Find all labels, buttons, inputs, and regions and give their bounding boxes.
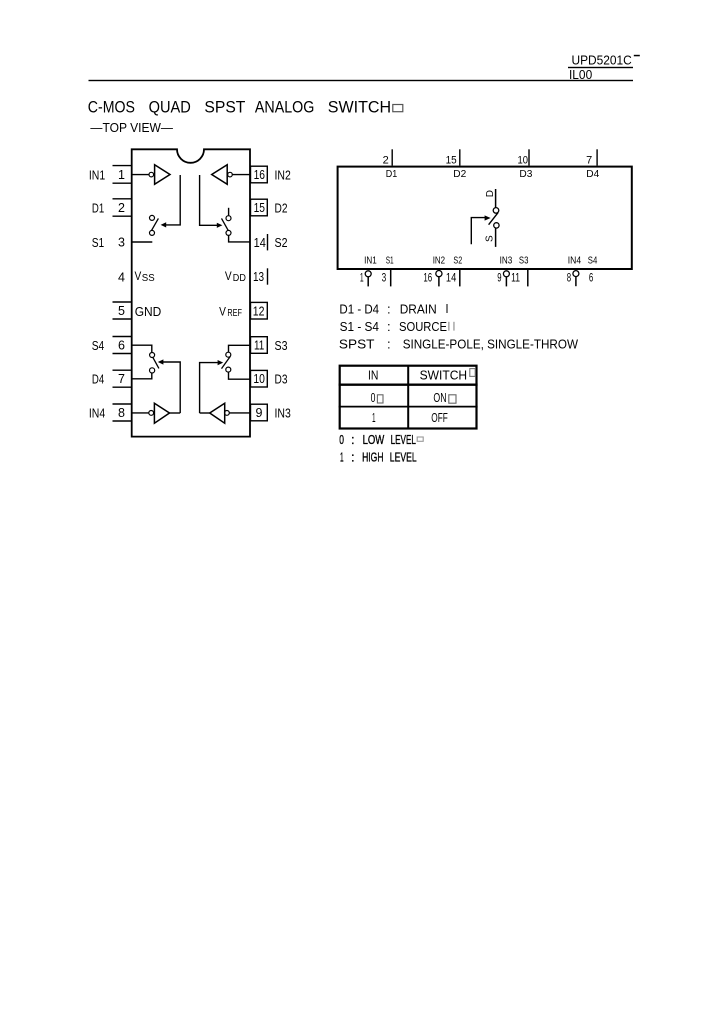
svg-text:IN: IN [368,368,378,383]
pin 9 stub box [251,404,268,421]
svg-text:S4: S4 [92,339,105,353]
svg-text:DD: DD [233,273,246,284]
wire switch SW3 to pin10 (D3) [229,372,251,379]
svg-text:OFF: OFF [431,410,448,425]
switch SW3 blade [222,356,231,368]
pin 3 lead S1 [390,270,392,287]
pin 11 stub box [251,337,268,354]
pin 13 stub edge [267,268,268,284]
svg-text:13: 13 [253,270,264,284]
wire pin1 to inverter A1 [131,174,149,176]
svg-text:SINGLE-POLE, SINGLE-THROW: SINGLE-POLE, SINGLE-THROW [403,336,579,351]
arrow into switch SW4 [158,359,164,364]
pin 11 lead S3 [527,270,529,287]
svg-text:IN4: IN4 [89,406,105,420]
svg-text:1: 1 [372,410,376,425]
wire switch SW4 to pin7 (D4) [131,373,152,379]
svg-text:1: 1 [118,168,125,182]
legend SOURCE trailing artifacts [448,322,449,331]
switch SW4 bottom contact [150,368,155,373]
pin 2 stub [113,199,132,216]
svg-text:14: 14 [254,236,266,250]
inverter A3 input bubble [225,411,230,416]
svg-text:SWITCH: SWITCH [420,368,468,383]
functional diagram box [338,167,632,269]
pin 9 lead with IN3 control circle [503,271,509,287]
svg-text:HIGH: HIGH [362,449,383,464]
svg-text:4: 4 [118,270,125,284]
svg-text:QUAD: QUAD [149,97,191,116]
svg-text:6: 6 [589,270,594,284]
svg-text:IN3: IN3 [500,256,513,267]
svg-text:2: 2 [383,155,389,167]
svg-text::: : [387,319,391,334]
svg-text:ON: ON [433,390,446,405]
svg-text:D2: D2 [275,201,288,215]
pin 6 stub [113,337,132,354]
truth table row divider [339,406,478,408]
svg-text:15: 15 [254,201,265,215]
wire pin6 (S4) to switch SW4 [131,345,152,352]
pin 1 stub [113,166,132,184]
pin label VDD [225,269,246,284]
svg-text:16: 16 [254,168,265,182]
svg-text:11: 11 [511,270,520,284]
svg-text:IN4: IN4 [568,256,582,267]
svg-text:S1 - S4: S1 - S4 [340,319,379,334]
switch SW3 top contact [226,352,231,357]
internal switch D lead [495,189,497,208]
svg-text:S: S [485,235,496,242]
pin 7 top lead [596,149,598,165]
svg-text:S2: S2 [453,256,462,267]
inverter A1 (IN1) [155,165,170,185]
svg-text:10: 10 [253,372,265,386]
pin 8 lead with IN4 control circle [573,271,579,287]
svg-text::: : [387,301,391,316]
svg-text:V: V [219,304,226,318]
svg-text:5: 5 [118,304,125,318]
svg-text:S1: S1 [386,256,394,267]
inverter A2 input bubble [228,172,233,177]
svg-text:IN1: IN1 [364,256,377,267]
wire riser A2 output to switch SW2 [200,175,217,225]
svg-text:IN2: IN2 [275,168,291,182]
wire pin8 to inverter A4 [131,412,149,414]
internal switch blade [489,213,498,225]
wire riser inverter A4 output to switch SW4 [163,362,181,413]
internal switch bottom contact [494,223,499,228]
header part number UPD5201C [572,52,640,67]
svg-text:16: 16 [423,270,432,284]
svg-text:—TOP VIEW—: —TOP VIEW— [90,121,173,135]
svg-text::: : [387,336,391,351]
pin 12 stub box [251,302,268,319]
svg-text:C-MOS: C-MOS [88,97,135,116]
title [88,97,391,116]
svg-text:S3: S3 [275,339,288,353]
svg-text:SWITCH: SWITCH [328,97,391,116]
svg-text:IN3: IN3 [275,406,291,420]
svg-text:UPD5201C: UPD5201C [572,52,632,67]
svg-text:3: 3 [382,270,387,284]
svg-text:D3: D3 [519,169,532,180]
truth table outer border [340,366,477,429]
wire pin11 (S3) to switch SW3 [229,345,251,352]
wire inverter A4 output [170,412,181,414]
svg-text:1: 1 [340,449,344,464]
svg-text:LEVEL: LEVEL [390,449,417,464]
svg-text:D: D [485,190,496,197]
svg-text:S3: S3 [519,256,529,267]
legend line S1-S4 SOURCE [340,319,448,334]
svg-text:SS: SS [142,273,155,284]
pin 2 top lead [391,149,393,165]
svg-text:10: 10 [518,155,529,167]
inverter A4 input bubble [149,411,154,416]
arrow into switch SW2 [217,223,223,228]
header underline under part number [568,67,633,68]
switch SW2 bottom contact [226,230,231,235]
switch SW1 top contact [150,215,155,220]
wire switch SW2 to pin14 (S2) [229,236,251,242]
svg-text:DRAIN: DRAIN [400,301,437,316]
inverter A3 (IN3) [210,403,225,423]
legend line SPST [339,336,579,351]
DIP-16 package body with notch [132,149,250,436]
truth table header divider [339,384,478,386]
svg-text:S1: S1 [92,236,105,250]
svg-text:0: 0 [371,390,376,405]
svg-text:8: 8 [567,270,572,284]
wire pin3 (S1) [131,241,152,243]
svg-text:14: 14 [446,270,457,284]
note 0 LOW LEVEL [339,432,416,447]
svg-text:9: 9 [497,270,502,284]
svg-text:REF: REF [227,308,242,319]
note 1 HIGH LEVEL [340,449,417,464]
svg-text:V: V [225,269,232,283]
switch SW2 blade [222,218,229,230]
pin 14 stub edge [267,234,268,250]
legend DRAIN trailing artifact [446,304,447,313]
switch SW1 bottom contact [150,230,155,235]
pin 14 lead S2 [459,270,461,287]
note LOW LEVEL trailing artifact [417,437,423,441]
wire riser A1 output to switch SW1 [165,175,180,225]
inverter A4 (IN4) [154,403,169,423]
svg-text:D2: D2 [453,169,466,180]
svg-text:1: 1 [360,270,364,284]
title trailing artifact square [393,105,403,112]
switch SW2 top contact [226,216,231,221]
switch SW3 bottom contact [226,367,231,372]
table cell 0 artifact square [377,395,383,403]
svg-text:D4: D4 [586,169,599,180]
pin 10 stub box [251,370,268,387]
switch SW1 blade [152,218,159,230]
svg-text::: : [351,449,355,464]
pin 16 lead with IN2 control circle [436,271,442,287]
internal switch S lead [495,228,497,247]
svg-text:3: 3 [118,235,125,249]
pin 5 stub [113,302,132,319]
svg-text:2: 2 [118,201,125,215]
table cell ON artifact square [449,395,456,403]
svg-text:SPST: SPST [204,97,245,116]
svg-text:9: 9 [256,406,263,420]
svg-text:D1 - D4: D1 - D4 [339,301,379,316]
svg-text:D1: D1 [92,201,104,215]
svg-text:V: V [135,269,142,283]
svg-text:D3: D3 [275,373,288,387]
wire pin15 (D2) stub to switch SW2 [228,208,230,216]
svg-text:11: 11 [254,338,264,352]
pin 1 lead with IN1 control circle [365,271,371,287]
svg-text:7: 7 [118,372,125,386]
svg-text:IN2: IN2 [433,256,446,267]
svg-text:7: 7 [586,155,592,167]
pin 15 stub box [251,199,268,216]
pin 16 stub box [251,166,268,183]
svg-text:D1: D1 [386,169,398,180]
wire riser inverter A3 output to switch SW3 [200,363,218,413]
svg-text:6: 6 [118,338,125,352]
pin 10 top lead [528,149,530,165]
legend line D1-D4 DRAIN [339,301,436,316]
pin 8 stub [113,404,132,421]
inverter A1 input bubble [149,172,154,177]
wire pin16 to inverter A2 [232,174,250,176]
table header artifact square [470,369,475,377]
svg-text:LEVEL: LEVEL [391,432,416,447]
svg-text::: : [351,432,355,447]
svg-text:ANALOG: ANALOG [255,97,315,116]
svg-text:D4: D4 [92,373,104,387]
svg-text:12: 12 [253,304,265,318]
pin label VSS [135,269,156,284]
svg-text:S4: S4 [588,256,598,267]
svg-text:8: 8 [118,406,125,420]
arrow into switch SW3 [218,360,224,365]
arrow into switch SW1 [161,222,167,227]
pin 7 stub [113,370,132,387]
internal switch top contact [493,208,499,214]
header long rule [89,80,634,81]
truth table column divider [407,365,409,429]
svg-text:GND: GND [135,304,162,319]
pin label VREF [219,304,242,318]
svg-text:LOW: LOW [363,432,385,447]
svg-text:0: 0 [339,432,344,447]
switch SW4 top contact [150,353,155,358]
svg-text:SPST: SPST [339,336,375,351]
svg-text:SOURCE: SOURCE [399,319,447,334]
wire inverter A3 output [200,412,210,414]
svg-text:15: 15 [446,155,457,167]
arrow into internal switch [485,215,491,220]
internal switch control wire [471,218,485,245]
inverter A2 (IN2) [212,165,228,185]
svg-text:IN1: IN1 [89,168,105,182]
switch SW4 blade [153,358,159,369]
pin 15 top lead [459,149,461,165]
svg-text:S2: S2 [275,236,288,250]
svg-text:IL00: IL00 [569,67,592,82]
wire pin9 to inverter A3 [229,412,250,414]
